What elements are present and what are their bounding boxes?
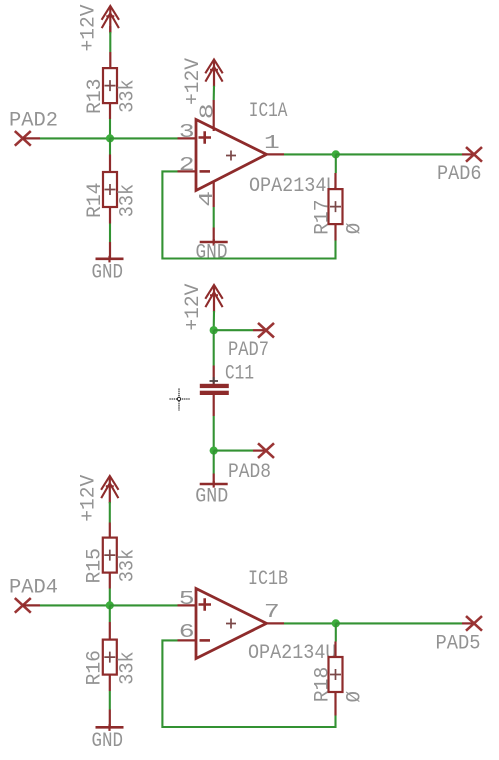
ground GND (pin 4) <box>200 228 228 246</box>
wire node A to pin 3 <box>110 137 178 139</box>
node C junction <box>210 326 218 334</box>
svg-text:PAD8: PAD8 <box>228 461 271 484</box>
wire node F to R18 <box>335 623 337 641</box>
svg-text:PAD4: PAD4 <box>9 576 58 599</box>
op-amp U IC1A triangle <box>196 120 267 191</box>
svg-text:2: 2 <box>179 154 195 176</box>
svg-text:6: 6 <box>179 621 195 643</box>
pin 4 stub <box>213 182 215 208</box>
svg-text:7: 7 <box>264 601 280 623</box>
wire C11 to node D <box>213 416 215 451</box>
svg-text:Ø: Ø <box>344 691 367 703</box>
svg-text:IC1A: IC1A <box>249 100 288 123</box>
wire PAD4 to node E <box>40 604 110 606</box>
wire R16 to GND <box>109 691 111 710</box>
op-amp IC1A plus input marker <box>199 131 212 144</box>
pin 6 stub <box>178 639 197 641</box>
svg-text:33k: 33k <box>116 549 139 583</box>
wire pin 1 to node B <box>284 153 336 155</box>
wire supply to R15 <box>109 502 111 523</box>
resistor R17 <box>329 173 343 241</box>
svg-text:PAD2: PAD2 <box>9 109 58 132</box>
pin 2 stub <box>178 170 197 172</box>
node D junction <box>210 447 218 455</box>
svg-text:R16: R16 <box>84 650 107 686</box>
wire node F to PAD5 <box>336 622 474 624</box>
svg-text:OPA2134U: OPA2134U <box>249 175 338 198</box>
supply +12V (above R13) <box>102 6 119 33</box>
wire R14 to GND <box>109 224 111 243</box>
op-amp U IC1B triangle <box>196 589 267 659</box>
ground GND (C11) <box>200 474 228 488</box>
wire node E to pin 5 <box>110 604 178 606</box>
pin 5 stub <box>178 604 197 606</box>
cursor crosshair <box>170 389 191 411</box>
wire supply to pin 8 <box>213 86 215 100</box>
supply +12V (C11) <box>205 285 222 312</box>
feedback wire pin 2 to bottom rail <box>162 171 335 258</box>
wire supply to R13 <box>109 26 111 32</box>
node B junction <box>332 150 340 158</box>
resistor R13 <box>103 52 117 119</box>
wire node A to R14 <box>109 138 111 154</box>
feedback wire pin 6 to bottom rail <box>162 640 335 727</box>
svg-text:GND: GND <box>92 261 124 284</box>
wire supply to node C <box>213 311 215 330</box>
wire pin 7 to node F <box>284 622 336 624</box>
wire node C to PAD7 <box>214 329 266 331</box>
svg-text:33k: 33k <box>117 79 140 113</box>
resistor R14 <box>103 155 117 224</box>
svg-text:+12V: +12V <box>78 4 101 52</box>
svg-text:4: 4 <box>196 191 218 207</box>
pad PAD8 <box>258 443 274 458</box>
svg-text:GND: GND <box>92 730 124 753</box>
resistor R15 <box>103 523 117 589</box>
wire node C to C11 <box>213 330 215 365</box>
svg-text:+12V: +12V <box>182 283 205 331</box>
svg-text:GND: GND <box>196 242 228 265</box>
svg-text:R15: R15 <box>84 548 107 584</box>
svg-text:R13: R13 <box>84 79 107 115</box>
op-amp IC1B plus input marker <box>199 598 212 611</box>
pad PAD2 <box>15 131 40 146</box>
supply +12V (above R15) <box>101 476 118 503</box>
svg-text:PAD7: PAD7 <box>228 339 269 362</box>
svg-text:+12V: +12V <box>77 474 100 522</box>
pad PAD7 <box>258 323 274 338</box>
svg-text:Ø: Ø <box>344 223 367 235</box>
pad PAD5 <box>466 616 482 631</box>
pin 3 stub <box>178 137 197 139</box>
wire node D to GND <box>213 451 215 474</box>
wire R15 to node E <box>109 589 111 606</box>
svg-text:PAD5: PAD5 <box>436 632 481 655</box>
svg-text:PAD6: PAD6 <box>437 163 482 186</box>
svg-text:R17: R17 <box>311 199 334 235</box>
svg-text:+12V: +12V <box>182 57 205 105</box>
resistor R18 <box>329 642 343 716</box>
wire node B to R17 <box>335 154 337 173</box>
pad PAD6 <box>466 147 482 162</box>
op-amp IC1A center origin cross <box>226 151 236 161</box>
svg-text:C11: C11 <box>225 363 254 386</box>
capacitor C11 <box>200 366 229 417</box>
svg-text:IC1B: IC1B <box>248 568 288 591</box>
wire R13 to node A <box>109 119 111 138</box>
svg-text:33k: 33k <box>116 651 139 685</box>
svg-text:R14: R14 <box>84 183 107 219</box>
svg-text:3: 3 <box>179 121 195 143</box>
ground GND (below R14) <box>96 242 124 262</box>
wire node E to R16 <box>109 605 111 622</box>
svg-text:1: 1 <box>264 132 280 154</box>
svg-text:R18: R18 <box>311 667 334 703</box>
wire node D to PAD8 <box>214 450 266 452</box>
wire node B to PAD6 <box>336 153 474 155</box>
supply +12V (pin 8) <box>205 60 222 87</box>
node A junction <box>106 134 114 142</box>
pad PAD4 <box>15 598 40 613</box>
svg-text:GND: GND <box>195 486 228 509</box>
resistor R16 <box>103 622 117 691</box>
wire pin 4 to GND <box>213 207 215 228</box>
node F junction <box>332 619 340 627</box>
svg-text:OPA2134U: OPA2134U <box>248 642 337 665</box>
pin 1 stub <box>267 153 285 155</box>
op-amp IC1A minus input marker <box>200 170 211 173</box>
op-amp IC1B minus input marker <box>200 639 211 642</box>
wire PAD2 to node A <box>40 137 110 139</box>
ground GND (below R16) <box>96 710 124 731</box>
svg-text:33k: 33k <box>117 184 140 218</box>
op-amp IC1B center origin cross <box>226 619 236 629</box>
pin 8 stub <box>213 100 215 131</box>
svg-text:5: 5 <box>179 588 195 610</box>
node E junction <box>106 601 114 609</box>
pin 7 stub <box>267 622 285 624</box>
